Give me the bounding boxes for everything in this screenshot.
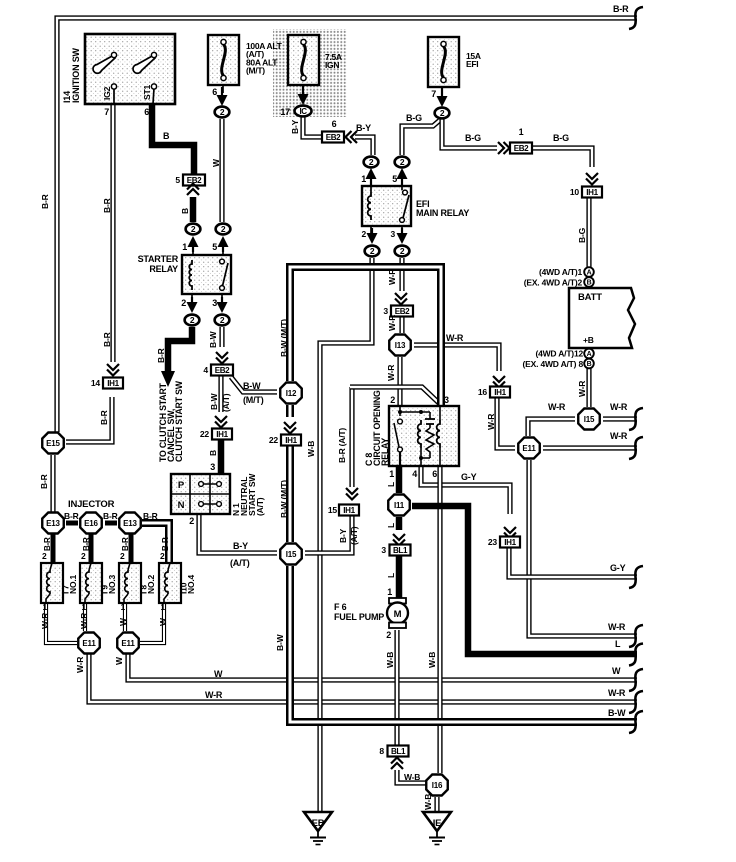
ignition switch contact ST1 bbox=[153, 88, 154, 104]
svg-text:16: 16 bbox=[478, 387, 488, 397]
svg-text:W: W bbox=[158, 617, 168, 626]
svg-text:B-W (M/T): B-W (M/T) bbox=[279, 480, 289, 518]
svg-text:(A/T): (A/T) bbox=[230, 558, 250, 568]
wire B-W (M/T) from 22 IH1 down to I15 bbox=[286, 445, 294, 542]
svg-text:W-B: W-B bbox=[427, 652, 437, 668]
svg-text:W-R: W-R bbox=[386, 365, 396, 381]
svg-text:B-R: B-R bbox=[64, 511, 79, 521]
fuel pump F6 motor bbox=[389, 598, 406, 604]
svg-text:EB2: EB2 bbox=[395, 307, 410, 316]
svg-text:1: 1 bbox=[160, 602, 165, 612]
wire end hook W bbox=[629, 669, 643, 691]
svg-text:N: N bbox=[178, 500, 185, 511]
svg-text:B-R: B-R bbox=[613, 4, 629, 14]
svg-text:7: 7 bbox=[431, 89, 436, 99]
svg-text:2: 2 bbox=[361, 229, 366, 239]
svg-text:B: B bbox=[180, 208, 190, 214]
connector 1 EB2 bbox=[510, 143, 532, 154]
arrow down into junction below EFI relay pin 3 bbox=[401, 228, 403, 234]
junction 2 below EFI main relay pin 2 bbox=[365, 246, 380, 257]
wire from injector NO.4 to E11 bbox=[140, 603, 164, 643]
wire from injector NO.1 to E11 bbox=[46, 603, 77, 643]
chevron down into 15 IH1 bbox=[346, 488, 358, 494]
svg-text:14: 14 bbox=[91, 378, 101, 388]
wire W-R from I15 left to E11 top bbox=[528, 419, 575, 436]
svg-text:W-R: W-R bbox=[205, 690, 223, 700]
wire B-G from 10 IH1 down to battery terminal A bbox=[586, 197, 591, 267]
svg-text:B-W: B-W bbox=[208, 330, 218, 348]
wire L thick from circuit opening relay pin 1 to I11 bbox=[396, 466, 403, 493]
svg-text:6: 6 bbox=[332, 119, 337, 129]
svg-text:1: 1 bbox=[42, 602, 47, 612]
svg-text:B-R: B-R bbox=[43, 537, 52, 551]
svg-text:W-R: W-R bbox=[75, 657, 85, 673]
wire W (white) from E11 to right edge bbox=[128, 654, 637, 680]
svg-text:B-G: B-G bbox=[577, 227, 587, 243]
battery BATT box bbox=[569, 288, 635, 348]
svg-text:W-R: W-R bbox=[608, 622, 626, 632]
EFI main relay switch bbox=[403, 190, 408, 195]
svg-text:B-W: B-W bbox=[243, 381, 261, 391]
svg-text:6: 6 bbox=[432, 469, 437, 479]
svg-text:2: 2 bbox=[160, 551, 165, 561]
svg-text:22: 22 bbox=[269, 435, 279, 445]
svg-text:1: 1 bbox=[120, 602, 125, 612]
svg-text:B-R: B-R bbox=[161, 537, 170, 551]
wire B-R thick from E16 to injector NO.3 bbox=[89, 534, 94, 563]
svg-text:W-R: W-R bbox=[610, 431, 628, 441]
connector I13 bbox=[389, 335, 411, 356]
wire B-W from starter relay pin 3 to 4 EB2 bbox=[219, 327, 224, 347]
svg-text:B-W (M/T): B-W (M/T) bbox=[279, 319, 289, 357]
wire W-R from battery terminal B to I15 bbox=[586, 368, 591, 407]
circuit opening relay C8 box bbox=[389, 406, 459, 466]
svg-text:B-Y: B-Y bbox=[290, 119, 300, 134]
svg-text:IG2: IG2 bbox=[102, 86, 112, 100]
svg-text:3: 3 bbox=[390, 229, 395, 239]
connector 14 IH1 bbox=[103, 378, 123, 389]
wire G-Y from circuit opening relay pin 4 to 23 IH1 bbox=[421, 466, 510, 514]
connector 22 IH1 (A/T) bbox=[212, 429, 232, 440]
wire B-R from E15 down to E13 bbox=[50, 455, 55, 512]
svg-text:FUEL PUMP: FUEL PUMP bbox=[334, 612, 384, 622]
connector 3 BL1 bbox=[390, 545, 411, 556]
svg-text:A: A bbox=[587, 269, 592, 276]
svg-text:B: B bbox=[208, 450, 218, 456]
svg-text:B: B bbox=[587, 361, 592, 368]
svg-text:B-Y: B-Y bbox=[356, 123, 371, 133]
junction 2 above EFI main relay pin 5 bbox=[395, 157, 410, 168]
svg-text:B-R (A/T): B-R (A/T) bbox=[337, 428, 347, 463]
arrow down into junction below starter relay pin 2 bbox=[191, 297, 193, 303]
svg-text:W-B: W-B bbox=[306, 441, 316, 457]
svg-text:IH1: IH1 bbox=[504, 538, 516, 547]
connector I15 left bbox=[280, 544, 302, 565]
svg-text:W-R: W-R bbox=[608, 688, 626, 698]
connector 3 EB2 bbox=[391, 306, 413, 317]
svg-text:3: 3 bbox=[212, 298, 217, 308]
junction 2 above EFI main relay pin 1 bbox=[364, 157, 379, 168]
chevron up into 5 EB2 bbox=[187, 189, 199, 195]
svg-text:+B: +B bbox=[583, 335, 594, 345]
svg-text:(M/T): (M/T) bbox=[246, 66, 265, 76]
svg-text:(4WD A/T)1: (4WD A/T)1 bbox=[539, 267, 582, 277]
svg-text:P: P bbox=[178, 480, 185, 491]
svg-text:B-W: B-W bbox=[275, 633, 285, 651]
svg-text:6: 6 bbox=[144, 107, 149, 117]
svg-text:1: 1 bbox=[81, 602, 86, 612]
svg-text:(4WD A/T)12: (4WD A/T)12 bbox=[535, 349, 583, 359]
svg-text:I11: I11 bbox=[394, 501, 405, 510]
svg-text:(A/T): (A/T) bbox=[221, 393, 231, 412]
svg-text:B: B bbox=[587, 279, 592, 286]
connector E16 bbox=[80, 513, 102, 534]
svg-text:W-R: W-R bbox=[486, 414, 496, 430]
neutral start switch contacts P bbox=[202, 483, 219, 485]
arrow down into junction below starter relay pin 3 bbox=[221, 297, 223, 303]
wire W-B from EFI main relay pin 2 to EB ground bbox=[320, 258, 372, 812]
starter relay switch bbox=[220, 259, 225, 264]
chevron left into 6 EB2 bbox=[351, 131, 357, 143]
terminal B above battery bbox=[584, 277, 594, 287]
injector I9 NO.3 bbox=[80, 563, 102, 603]
wire L thick from I11 down to 3 BL1 bbox=[396, 517, 403, 530]
svg-text:NO.4: NO.4 bbox=[186, 574, 196, 594]
wire W-R from I15 right to right edge bbox=[603, 416, 637, 421]
svg-text:3: 3 bbox=[381, 545, 386, 555]
svg-text:2: 2 bbox=[189, 516, 194, 526]
junction 2 below starter relay pin 3 bbox=[215, 315, 230, 326]
svg-text:2: 2 bbox=[181, 298, 186, 308]
connector I12 bbox=[280, 383, 302, 404]
svg-text:3: 3 bbox=[210, 462, 215, 472]
svg-text:1: 1 bbox=[519, 127, 524, 137]
svg-text:B: B bbox=[163, 131, 170, 141]
svg-text:IH1: IH1 bbox=[216, 430, 228, 439]
wire end hook B-R bbox=[629, 7, 643, 29]
svg-text:A: A bbox=[587, 351, 592, 358]
fuse 100A ALT bbox=[208, 35, 239, 85]
arrowhead to clutch start switches bbox=[161, 371, 175, 387]
svg-text:ST1: ST1 bbox=[142, 85, 152, 100]
svg-text:EB2: EB2 bbox=[514, 144, 529, 153]
svg-text:(M/T): (M/T) bbox=[243, 395, 264, 405]
svg-text:2: 2 bbox=[390, 395, 395, 405]
chevron down into 23 IH1 bbox=[504, 527, 516, 533]
svg-text:B-R: B-R bbox=[39, 474, 49, 489]
wire W-B from I16 to IE ground bbox=[434, 797, 439, 812]
chevron up into 8 BL1 bbox=[391, 763, 403, 769]
svg-text:W: W bbox=[118, 617, 128, 626]
chevron down into 16 IH1 bbox=[493, 376, 505, 382]
wire B-R (A/T) horizontal into circuit opening relay pin 3 bbox=[350, 387, 441, 405]
wire W-B from fuel pump pin 2 to 8 BL1 bbox=[394, 630, 399, 745]
svg-text:B-R: B-R bbox=[102, 198, 112, 213]
svg-text:4: 4 bbox=[203, 365, 208, 375]
connector 8 BL1 bbox=[388, 746, 409, 757]
svg-text:IH1: IH1 bbox=[586, 188, 598, 197]
svg-text:W: W bbox=[114, 656, 124, 665]
wire W-R from I13 to circuit opening relay pin 2 bbox=[397, 357, 402, 406]
ignition switch contact IG2 bbox=[113, 88, 115, 104]
circuit opening relay internal top rail bbox=[400, 411, 430, 413]
svg-text:IH1: IH1 bbox=[107, 379, 119, 388]
svg-text:(A/T): (A/T) bbox=[349, 526, 359, 545]
connector E11 far right bbox=[518, 438, 540, 459]
wire B-G upper branch to EFI main relay pin 5 bbox=[402, 120, 440, 155]
wire B-W (M/T) from I12 down to 22 IH1 bbox=[286, 405, 294, 417]
svg-text:23: 23 bbox=[488, 537, 498, 547]
junction 2 below starter relay pin 2 bbox=[185, 315, 200, 326]
svg-text:5: 5 bbox=[212, 242, 217, 252]
connector E11 right bbox=[117, 633, 139, 654]
wire end hook G-Y bbox=[629, 566, 643, 588]
svg-text:22: 22 bbox=[200, 429, 210, 439]
svg-text:E16: E16 bbox=[84, 519, 98, 528]
svg-text:IH1: IH1 bbox=[494, 388, 506, 397]
svg-text:G-Y: G-Y bbox=[461, 472, 477, 482]
terminal A below battery bbox=[584, 349, 594, 359]
svg-text:M: M bbox=[394, 609, 402, 620]
svg-text:W-R: W-R bbox=[610, 402, 628, 412]
svg-text:W-B: W-B bbox=[423, 794, 433, 810]
wire B-G from 15A EFI fuse to EB2 junction 1 bbox=[442, 119, 497, 148]
neutral start switch N1 box bbox=[171, 474, 230, 514]
svg-text:I15: I15 bbox=[584, 415, 595, 424]
halftone shading patch behind 7.5A IGN fuse bbox=[273, 29, 347, 117]
svg-text:E11: E11 bbox=[522, 444, 536, 453]
svg-text:B-R: B-R bbox=[143, 511, 158, 521]
wire B-R from 14 IH1 to E15 bbox=[66, 397, 112, 442]
svg-text:G-Y: G-Y bbox=[610, 563, 626, 573]
wire W from 100A ALT fuse to starter relay pin 5 bbox=[219, 119, 224, 222]
svg-text:B-Y: B-Y bbox=[338, 528, 348, 543]
wire W-B from 8 BL1 to I16 bbox=[397, 770, 426, 783]
connector 10 IH1 bbox=[582, 187, 602, 198]
connector E13 second bbox=[119, 513, 141, 534]
svg-text:STARTER: STARTER bbox=[138, 254, 179, 264]
svg-text:BL1: BL1 bbox=[393, 546, 408, 555]
circuit opening relay internal switch bbox=[399, 406, 401, 416]
wire W-R from E11 to right edge bbox=[89, 654, 637, 702]
circuit opening relay resistor bbox=[426, 428, 434, 458]
svg-text:L: L bbox=[386, 523, 396, 528]
svg-text:W: W bbox=[211, 158, 221, 167]
svg-text:MAIN RELAY: MAIN RELAY bbox=[416, 208, 469, 218]
svg-text:7: 7 bbox=[104, 107, 109, 117]
wire L thick from I11 right to right edge bbox=[412, 506, 637, 654]
connector 4 EB2 bbox=[211, 365, 233, 376]
svg-text:1: 1 bbox=[361, 174, 366, 184]
svg-text:RELAY: RELAY bbox=[380, 438, 390, 466]
svg-text:W-R: W-R bbox=[446, 333, 464, 343]
svg-text:I15: I15 bbox=[286, 550, 297, 559]
wire B-R main feed: top edge and left edge bbox=[57, 18, 637, 432]
svg-text:(EX. 4WD A/T) 8: (EX. 4WD A/T) 8 bbox=[523, 359, 584, 369]
svg-text:IE: IE bbox=[433, 818, 442, 829]
connector I16 bbox=[426, 775, 448, 796]
ignition switch I14 box bbox=[85, 34, 175, 104]
svg-text:EB: EB bbox=[312, 818, 325, 829]
svg-text:CLUTCH START SW: CLUTCH START SW bbox=[174, 380, 184, 462]
wire B-Y from IC to EB2 junction 6 bbox=[303, 117, 324, 137]
wire B-R (A/T) from corner down to 15 IH1 bbox=[349, 387, 354, 487]
ground IE bbox=[423, 812, 451, 831]
junction 2 below 15A EFI fuse bbox=[435, 108, 450, 119]
svg-text:B-W: B-W bbox=[209, 392, 219, 410]
circuit opening relay coil 1 bbox=[418, 420, 421, 448]
svg-text:IC: IC bbox=[300, 107, 308, 116]
wire B thick from ignition SW ST1 pin 6 to 5 EB2 bbox=[152, 104, 194, 174]
chevron down into 4 EB2 bbox=[216, 352, 228, 358]
svg-text:B-W: B-W bbox=[608, 708, 626, 718]
wire B-Y from neutral start SW pin 2 to I15 bbox=[199, 514, 277, 553]
connector 5 EB2 bbox=[183, 175, 205, 186]
chevron down into 22 IH1 M/T bbox=[284, 422, 296, 428]
arrow up into junction above EFI relay pin 5 bbox=[401, 178, 403, 187]
ignition switch lever ST1 bbox=[133, 56, 155, 74]
junction IC below 7.5A IGN fuse bbox=[295, 106, 312, 117]
svg-text:W-B: W-B bbox=[385, 652, 395, 668]
svg-text:8: 8 bbox=[379, 746, 384, 756]
connector 6 EB2 bbox=[322, 132, 344, 143]
injector I8 NO.2 bbox=[119, 563, 141, 603]
connector E13 first bbox=[42, 513, 64, 534]
wire from injector NO.3 to E11 bbox=[83, 603, 87, 631]
svg-text:1: 1 bbox=[182, 242, 187, 252]
arrow up into junction above starter relay pin 5 bbox=[222, 246, 224, 252]
svg-text:4: 4 bbox=[412, 469, 417, 479]
ground EB bbox=[304, 812, 332, 831]
svg-text:B-R: B-R bbox=[40, 194, 50, 209]
EFI main relay coil bbox=[368, 192, 371, 220]
wire from injector NO.2 to E11 bbox=[123, 603, 127, 631]
svg-text:W-R: W-R bbox=[387, 269, 397, 285]
svg-text:I12: I12 bbox=[286, 389, 297, 398]
arrow up into junction above EFI relay pin 1 bbox=[370, 178, 372, 187]
injector I7 NO.1 bbox=[41, 563, 63, 603]
EFI main relay U: box bbox=[362, 186, 411, 226]
chevron down into 3 BL1 bbox=[393, 534, 405, 540]
svg-text:(EX. 4WD A/T)2: (EX. 4WD A/T)2 bbox=[524, 278, 583, 288]
svg-text:E11: E11 bbox=[82, 639, 96, 648]
svg-text:17: 17 bbox=[280, 107, 290, 117]
svg-text:BATT: BATT bbox=[578, 292, 602, 303]
wire end hook W-R lower bbox=[629, 625, 643, 647]
wire W-R from I13 right to 16 IH1 bbox=[414, 345, 499, 371]
svg-text:E15: E15 bbox=[46, 439, 60, 448]
svg-text:B-G: B-G bbox=[465, 133, 481, 143]
wire end hook W-R upper bbox=[629, 408, 643, 430]
svg-text:B-R: B-R bbox=[156, 348, 166, 363]
wire B-R thick from starter relay pin 2 toward clutch start sw bbox=[168, 327, 192, 372]
circuit opening relay capacitor element bbox=[429, 412, 431, 419]
wire end hook B-W bbox=[629, 711, 643, 733]
svg-text:15: 15 bbox=[328, 505, 338, 515]
svg-text:W-R: W-R bbox=[577, 381, 587, 397]
chevron right into 1 EB2 bbox=[498, 142, 504, 154]
arrow up into junction above starter relay pin 1 bbox=[192, 246, 194, 252]
wire end hook W-R E11 bbox=[629, 437, 643, 459]
svg-text:IH1: IH1 bbox=[285, 436, 297, 445]
svg-text:E11: E11 bbox=[121, 639, 135, 648]
wire B-R link E16 to E13 bbox=[105, 521, 117, 526]
svg-text:IGNITION SW: IGNITION SW bbox=[71, 47, 81, 103]
svg-text:B-R: B-R bbox=[121, 537, 130, 551]
wire B-W (M/T) diagonal from 4 EB2 to I12 bbox=[231, 377, 277, 392]
svg-text:L: L bbox=[386, 573, 396, 578]
svg-text:B-R: B-R bbox=[82, 537, 91, 551]
chevron down into 3 EB2 bbox=[395, 293, 407, 299]
wire end hook W-R bottom bbox=[629, 691, 643, 713]
svg-text:1: 1 bbox=[389, 469, 394, 479]
wire B-W (M/T) loop from I12 up over to circuit opening relay pin 3 bbox=[290, 267, 441, 405]
connector 23 IH1 bbox=[500, 537, 520, 548]
svg-text:EFI: EFI bbox=[466, 59, 478, 69]
connector E11 left bbox=[78, 633, 100, 654]
wire G-Y from 23 IH1 to right edge bbox=[509, 547, 637, 577]
svg-text:INJECTOR: INJECTOR bbox=[68, 499, 115, 510]
wire W-R from 3 EB2 to I13 bbox=[399, 316, 404, 333]
wire B-R link E13 to E16 bbox=[66, 521, 78, 526]
circuit opening relay coil 2 bbox=[437, 420, 440, 448]
svg-text:NO.2: NO.2 bbox=[146, 574, 156, 594]
wire B-R from ignition SW IG2 pin 7 down bbox=[110, 104, 115, 362]
wire B-R thick from E13 to injector NO.2 bbox=[129, 534, 134, 563]
wire B-G from EB2 junction 1 to 10 IH1 bbox=[531, 148, 592, 167]
injector I10 NO.4 bbox=[159, 563, 181, 603]
fuse 15A EFI bbox=[428, 37, 459, 87]
svg-text:B-R: B-R bbox=[102, 332, 112, 347]
svg-text:B-G: B-G bbox=[406, 113, 422, 123]
connector I15 right bbox=[578, 409, 600, 430]
svg-text:L: L bbox=[386, 482, 396, 487]
svg-text:3: 3 bbox=[383, 306, 388, 316]
svg-text:EB2: EB2 bbox=[215, 366, 230, 375]
junction 2 above starter relay pin 1 bbox=[186, 224, 201, 235]
wire B-R thick from E13 to injector NO.1 bbox=[51, 534, 56, 563]
fuse 7.5A IGN bbox=[288, 35, 319, 85]
chevron down into 14 IH1 bbox=[107, 364, 119, 370]
svg-text:3: 3 bbox=[444, 395, 449, 405]
svg-text:2: 2 bbox=[81, 551, 86, 561]
svg-text:W: W bbox=[612, 666, 621, 676]
svg-text:(A/T): (A/T) bbox=[255, 497, 265, 516]
svg-text:2: 2 bbox=[120, 551, 125, 561]
wire W-B from circuit opening relay pin 6 to I16 bbox=[437, 466, 442, 773]
connector 16 IH1 bbox=[490, 387, 510, 398]
wire B-Y from EB2 junction to EFI main relay pin 1 bbox=[355, 137, 373, 155]
junction 2 below 100A ALT fuse bbox=[215, 107, 230, 118]
arrow down into junction below EFI relay pin 2 bbox=[371, 228, 373, 234]
svg-text:E13: E13 bbox=[46, 519, 60, 528]
wire B thick from 5 EB2 to starter relay pin 1 bbox=[190, 197, 197, 222]
ignition switch lever IG2 bbox=[93, 56, 115, 74]
starter relay coil bbox=[189, 260, 192, 290]
svg-text:W-B: W-B bbox=[404, 772, 420, 782]
svg-text:2: 2 bbox=[386, 630, 391, 640]
svg-text:B-Y: B-Y bbox=[233, 541, 248, 551]
svg-text:L: L bbox=[615, 639, 621, 649]
wire B-Y (A/T) from I15 right to 15 IH1 bbox=[305, 516, 352, 553]
junction 2 below EFI main relay pin 3 bbox=[395, 246, 410, 257]
svg-text:B-G: B-G bbox=[553, 133, 569, 143]
svg-text:W-R: W-R bbox=[387, 315, 397, 331]
svg-text:W-R: W-R bbox=[548, 402, 566, 412]
svg-text:1: 1 bbox=[387, 587, 392, 597]
terminal A above battery bbox=[584, 267, 594, 277]
junction 2 above starter relay pin 5 bbox=[216, 224, 231, 235]
